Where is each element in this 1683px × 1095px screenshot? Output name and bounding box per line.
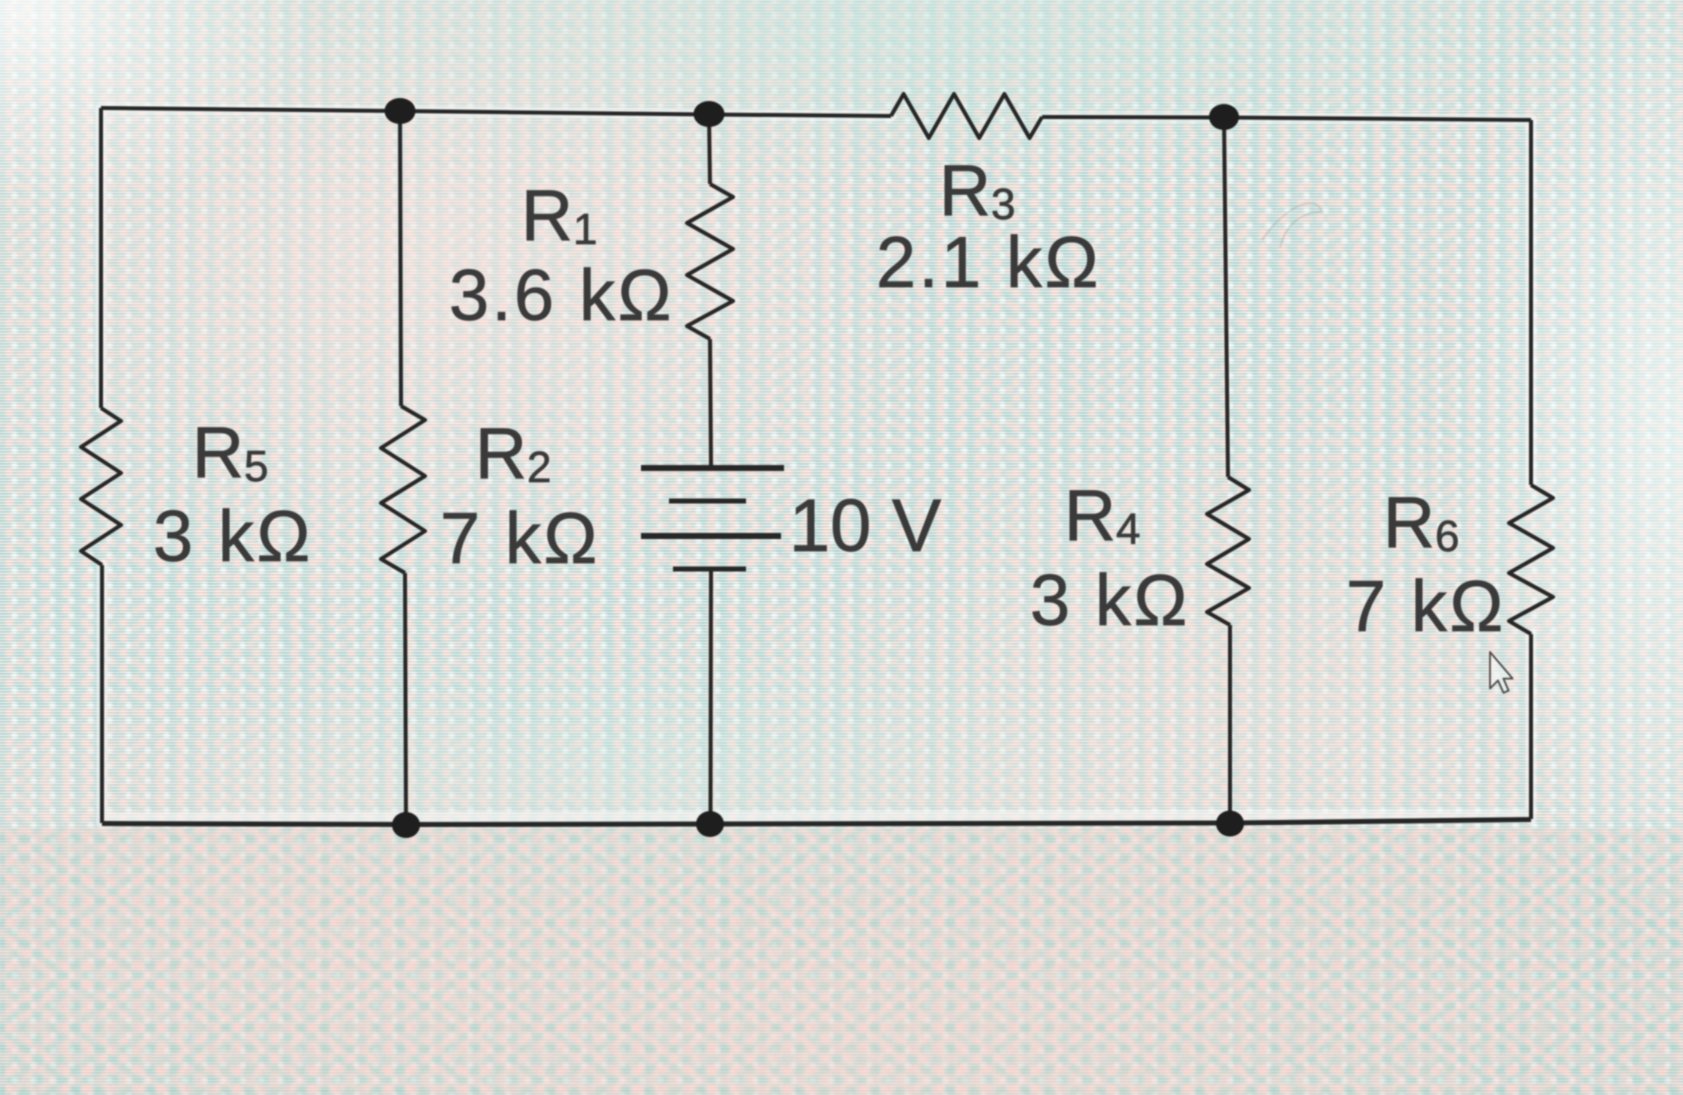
svg-text:R6: R6 bbox=[1383, 483, 1459, 563]
svg-text:R5: R5 bbox=[192, 413, 268, 493]
svg-text:R4: R4 bbox=[1064, 476, 1140, 556]
svg-text:3 kΩ: 3 kΩ bbox=[1030, 561, 1190, 641]
svg-text:2.1 kΩ: 2.1 kΩ bbox=[876, 223, 1101, 303]
svg-text:7 kΩ: 7 kΩ bbox=[440, 499, 600, 579]
svg-text:10 V: 10 V bbox=[789, 484, 942, 567]
svg-text:3.6 kΩ: 3.6 kΩ bbox=[449, 256, 674, 336]
svg-text:7 kΩ: 7 kΩ bbox=[1346, 567, 1506, 647]
svg-text:R3: R3 bbox=[939, 151, 1015, 231]
svg-text:R1: R1 bbox=[521, 176, 597, 256]
svg-text:3 kΩ: 3 kΩ bbox=[153, 497, 313, 577]
svg-text:R2: R2 bbox=[475, 414, 551, 494]
